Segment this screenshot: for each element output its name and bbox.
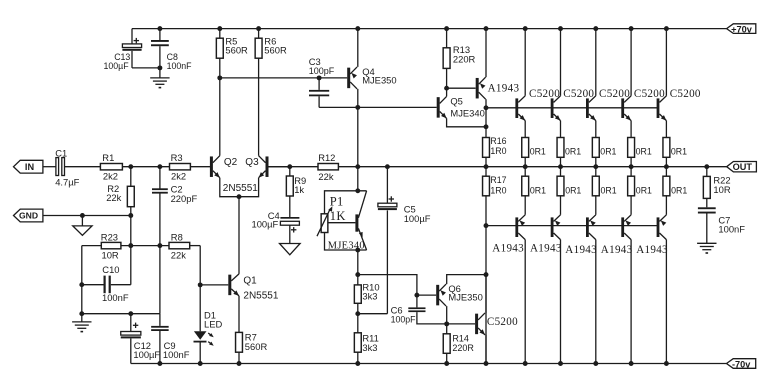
resistor R3 2k2 <box>170 164 191 170</box>
svg-text:2k2: 2k2 <box>171 170 186 181</box>
node A (R1/R2/R3) <box>128 164 133 169</box>
resistor R17 1R0 <box>485 167 487 177</box>
svg-text:C5200: C5200 <box>670 88 701 100</box>
svg-text:A1943: A1943 <box>601 244 633 256</box>
svg-text:MJE340: MJE340 <box>328 241 365 252</box>
junction D1/Q1 base <box>198 282 203 287</box>
resistor 0R1 upper #2 <box>560 121 562 138</box>
junction upper 0R1 #1/OUT row <box>523 164 528 169</box>
capacitor C8 100nF <box>159 29 161 40</box>
svg-text:220R: 220R <box>452 343 474 353</box>
wire Q4 emitter to +70 rail <box>357 29 359 67</box>
svg-text:Q1: Q1 <box>243 275 257 286</box>
junction tail <box>237 194 242 199</box>
svg-text:220pF: 220pF <box>171 193 198 204</box>
main signal/output row wire <box>43 166 56 168</box>
svg-text:MJE350: MJE350 <box>362 74 396 85</box>
IN connector tag <box>14 160 43 173</box>
junction C13/C8 <box>157 65 162 70</box>
junction C5200 #3/+70 rail <box>593 26 598 31</box>
transistor A1943 output #2 <box>551 217 554 237</box>
transistor A1943 output #5 <box>657 217 660 237</box>
resistor R16 1R0 <box>485 127 487 138</box>
resistor 0R1 upper #4 <box>630 121 632 138</box>
wire driver emitter down <box>485 335 487 364</box>
capacitor C10 100nF <box>82 284 104 286</box>
junction R11/-70 rail <box>355 361 360 366</box>
svg-text:0R1: 0R1 <box>636 185 652 195</box>
wire feedback row <box>82 245 102 247</box>
svg-text:GND: GND <box>19 211 38 221</box>
upper output base bus <box>486 107 658 109</box>
svg-text:4.7µF: 4.7µF <box>55 176 79 187</box>
transistor Q6 MJE350 <box>436 285 439 306</box>
wire P1 wiper to bias transistor base <box>328 222 356 224</box>
junction Q4/+70 rail <box>355 26 360 31</box>
wire GND row <box>43 215 131 217</box>
resistor R10 3k3 <box>357 275 359 285</box>
svg-text:A1943: A1943 <box>636 244 668 256</box>
svg-text:0R1: 0R1 <box>565 147 581 157</box>
junction box bottom <box>355 248 360 253</box>
svg-text:Q3: Q3 <box>245 157 259 168</box>
svg-text:3k3: 3k3 <box>362 342 377 353</box>
transistor C5200 output #3 <box>586 98 589 118</box>
svg-text:560R: 560R <box>225 45 248 56</box>
svg-text:C5200: C5200 <box>563 88 594 100</box>
junction C5200 #5/+70 rail <box>664 26 669 31</box>
svg-text:2k2: 2k2 <box>103 170 118 181</box>
svg-text:3k3: 3k3 <box>362 291 377 302</box>
junction earth branch <box>79 311 84 316</box>
junction R10 top <box>355 272 360 277</box>
junction C6 top/Q6 base <box>414 293 419 298</box>
svg-text:R8: R8 <box>171 231 183 242</box>
junction C5 top <box>385 164 390 169</box>
transistor Q4 MJE350 <box>347 68 350 89</box>
transistor bias MJE340 <box>355 214 358 231</box>
wire Q4 collector down to main row and bias box <box>357 89 359 191</box>
svg-text:22k: 22k <box>318 171 333 182</box>
-70v supply rail <box>131 363 727 365</box>
svg-text:560R: 560R <box>264 45 287 56</box>
svg-text:100µF: 100µF <box>104 61 130 71</box>
GND connector tag <box>14 209 43 222</box>
junction R13/Q5 collector <box>444 86 449 91</box>
resistor 0R1 upper #1 <box>524 121 526 138</box>
junction C5200 #2/+70 rail <box>558 26 563 31</box>
transistor Q1 2N5551 <box>200 284 228 286</box>
junction predriver/+70 rail <box>484 26 489 31</box>
svg-text:C5200: C5200 <box>487 316 518 328</box>
junction upper base bus <box>484 105 489 110</box>
resistor R2 22k <box>130 167 132 246</box>
svg-text:2N5551: 2N5551 <box>223 183 258 194</box>
resistor 0R1 lower #2 <box>560 167 562 177</box>
junction R9 top/Q3 base <box>287 164 292 169</box>
svg-text:0R1: 0R1 <box>600 147 616 157</box>
wire VAS drive row (R5 bottom to Q4 base) <box>220 77 347 79</box>
wire Q5 collector up <box>446 88 448 96</box>
junction C5200 #1/+70 rail <box>523 26 528 31</box>
transistor Q2 2N5551 <box>210 156 213 177</box>
svg-text:IN: IN <box>25 162 35 172</box>
svg-text:0R1: 0R1 <box>530 147 546 157</box>
resistor R14 220R <box>446 324 448 334</box>
svg-text:22k: 22k <box>171 250 186 261</box>
junction R13/+70 rail <box>444 26 449 31</box>
resistor 0R1 upper #5 <box>665 121 667 138</box>
svg-text:R23: R23 <box>101 231 118 242</box>
resistor 0R1 lower #4 <box>630 167 632 177</box>
capacitor C2 220pF <box>159 167 161 189</box>
svg-text:1k: 1k <box>294 184 304 195</box>
junction upper 0R1 #5/OUT row <box>664 164 669 169</box>
-70v tag <box>727 359 756 369</box>
junction D1/-70 rail <box>198 361 203 366</box>
svg-text:C5200: C5200 <box>634 88 665 100</box>
svg-text:OUT: OUT <box>733 162 753 172</box>
wire predriver emitter to +70 rail <box>485 29 487 78</box>
svg-text:C5200: C5200 <box>599 88 630 100</box>
resistor 0R1 lower #3 <box>595 167 597 177</box>
svg-text:100pF: 100pF <box>309 66 335 76</box>
junction A1943 #2/-70 rail <box>558 361 563 366</box>
junction box top <box>355 188 360 193</box>
junction Q6 collector/R14/C6/driver base <box>444 321 449 326</box>
svg-text:LED: LED <box>204 318 222 329</box>
svg-text:R3: R3 <box>171 152 183 163</box>
svg-text:0R1: 0R1 <box>601 185 617 195</box>
junction A1943 #5/-70 rail <box>664 361 669 366</box>
junction R16/OUT row <box>484 164 489 169</box>
svg-text:100µF: 100µF <box>133 349 160 360</box>
wire Q5 collector row to predriver base <box>447 87 476 89</box>
wire Q6 emitter row <box>447 275 486 285</box>
svg-text:P1: P1 <box>330 194 344 208</box>
svg-text:A1943: A1943 <box>530 243 562 255</box>
wire C5 bottom to R10 bottom <box>358 313 388 315</box>
capacitor C1 (4.7uF input) <box>56 158 59 176</box>
junction C9/-70 rail <box>157 361 162 366</box>
svg-text:Q2: Q2 <box>224 157 238 168</box>
svg-text:R1: R1 <box>102 152 114 163</box>
resistor R22 10R <box>706 167 708 177</box>
svg-text:0R1: 0R1 <box>565 185 581 195</box>
junction C2 column/R8 row <box>157 243 162 248</box>
wire driver collector up <box>485 275 487 313</box>
svg-text:1R0: 1R0 <box>490 186 506 196</box>
junction R22/OUT row <box>704 164 709 169</box>
svg-text:0R1: 0R1 <box>671 147 687 157</box>
+70v supply rail <box>132 28 727 30</box>
junction Q4 collector/Q5 base wire <box>355 105 360 110</box>
svg-text:100µF: 100µF <box>404 213 431 224</box>
transistor Q3 2N5551 <box>266 156 269 177</box>
svg-text:A1943: A1943 <box>565 244 597 256</box>
wire box bottom to R10 <box>357 250 359 275</box>
junction C5200 #4/+70 rail <box>629 26 634 31</box>
svg-text:R17: R17 <box>490 175 506 185</box>
svg-text:C5200: C5200 <box>529 88 560 100</box>
junction R5/Q2 collector <box>217 75 222 80</box>
resistor 0R1 lower #1 <box>524 167 526 177</box>
svg-text:100nF: 100nF <box>163 349 190 360</box>
svg-text:1K: 1K <box>330 209 346 223</box>
ground symbol (earth) under C7 <box>697 242 716 244</box>
resistor 0R1 lower #5 <box>665 167 667 177</box>
svg-text:C1: C1 <box>55 147 67 158</box>
ground symbol (triangle) under C4 <box>289 225 291 243</box>
resistor 0R1 upper #3 <box>595 121 597 138</box>
wire driver base <box>447 323 475 325</box>
junction Q4 collector/main row <box>355 164 360 169</box>
junction upper 0R1 #3/OUT row <box>593 164 598 169</box>
junction R5/+70 rail <box>217 26 222 31</box>
transistor A1943 output #4 <box>621 217 624 237</box>
capacitor C6 100pF <box>416 295 418 307</box>
svg-text:MJE340: MJE340 <box>450 107 484 118</box>
transistor A1943 predriver <box>476 78 479 99</box>
capacitor C13 100uF <box>131 29 133 44</box>
svg-text:0R1: 0R1 <box>636 147 652 157</box>
wire Q3 emitter to tail <box>239 178 259 197</box>
resistor R13 220R <box>446 29 448 48</box>
potentiometer P1 1K <box>321 214 328 233</box>
junction upper 0R1 #2/OUT row <box>558 164 563 169</box>
svg-text:1R0: 1R0 <box>490 146 506 156</box>
wire R8 right to D1 column <box>199 246 201 285</box>
junction upper 0R1 #4/OUT row <box>629 164 634 169</box>
svg-text:10R: 10R <box>102 250 119 261</box>
wire predriver collector down / R16 column <box>485 99 487 127</box>
svg-text:100µF: 100µF <box>252 218 279 229</box>
junction R7/-70 rail <box>237 361 242 366</box>
+70v tag <box>727 24 756 34</box>
capacitor C4 100uF <box>289 196 291 217</box>
resistor R11 3k3 <box>357 314 359 333</box>
LED D1 <box>199 285 201 331</box>
junction R14/-70 rail <box>444 361 449 366</box>
junction C3 top <box>317 75 322 80</box>
junction R10/R11/C5 <box>355 311 360 316</box>
transistor A1943 output #3 <box>586 217 589 237</box>
transistor C5200 driver <box>475 314 478 335</box>
junction A1943 #3/-70 rail <box>593 361 598 366</box>
junction A1943 #4/-70 rail <box>629 361 634 366</box>
wire Q2 emitter to tail <box>220 178 239 197</box>
junction R2/GND row <box>128 213 133 218</box>
svg-text:R12: R12 <box>318 152 335 163</box>
node B (C2 top) <box>157 164 162 169</box>
wire Q3 base <box>268 166 290 168</box>
wire Q2 collector up <box>219 78 221 156</box>
capacitor C9 100nF <box>159 314 161 326</box>
resistor R12 22k <box>318 164 338 170</box>
transistor C5200 output #5 <box>657 98 660 118</box>
wire R23 left leg down <box>81 246 83 314</box>
svg-text:Q5: Q5 <box>450 96 463 107</box>
resistor R23 10R <box>101 242 121 248</box>
junction C10 left <box>79 282 84 287</box>
svg-text:100nF: 100nF <box>718 223 745 234</box>
ground symbol (earth) under C8 <box>159 68 161 78</box>
svg-text:-70v: -70v <box>732 359 751 369</box>
junction Q6 emitter row <box>484 272 489 277</box>
wire R10 top row to C6 column <box>358 275 417 296</box>
junction A1943 #1/-70 rail <box>523 361 528 366</box>
wire C3 bottom to Q5 base <box>319 106 437 108</box>
svg-text:A1943: A1943 <box>488 83 520 95</box>
wire Q3 collector up to R6 <box>258 58 260 156</box>
transistor C5200 output #1 <box>515 98 518 118</box>
node GND junction <box>80 213 85 218</box>
svg-text:+70v: +70v <box>731 24 753 34</box>
svg-text:22k: 22k <box>106 192 121 203</box>
resistor R6 560R <box>258 29 260 39</box>
wire Q1 collector to diff pair tail <box>238 197 240 274</box>
transistor A1943 output #1 <box>515 217 518 237</box>
wire Q6 collector <box>446 306 448 324</box>
wire C10 right up to feedback row <box>130 246 132 285</box>
wire Q5 emitter <box>447 118 486 126</box>
ground symbol (earth) bottom-left <box>81 314 83 322</box>
svg-text:220R: 220R <box>453 54 476 65</box>
svg-text:MJE350: MJE350 <box>448 292 482 303</box>
resistor R8 22k <box>169 242 190 248</box>
wire Q6 base <box>417 294 436 296</box>
resistor R7 560R <box>238 296 240 333</box>
svg-text:100nF: 100nF <box>167 61 193 71</box>
transistor C5200 output #2 <box>551 98 554 118</box>
bias network box (P1 + MJE340) <box>325 191 367 214</box>
svg-text:R16: R16 <box>490 136 506 146</box>
wire bottom-left row <box>82 313 160 315</box>
junction Q5 emitter/R16 column <box>484 124 489 129</box>
junction R6/+70 rail <box>256 26 261 31</box>
junction column/-70 rail <box>484 361 489 366</box>
junction C12 top <box>128 311 133 316</box>
svg-text:10R: 10R <box>713 184 730 195</box>
svg-text:560R: 560R <box>245 341 268 352</box>
capacitor C12 100uF <box>130 314 132 332</box>
junction R2 bottom/R23/R8 row <box>128 243 133 248</box>
svg-text:0R1: 0R1 <box>671 185 687 195</box>
capacitor C7 100nF <box>706 198 708 207</box>
ground symbol (triangle) at GND <box>81 216 83 226</box>
transistor C5200 output #4 <box>621 98 624 118</box>
svg-text:A1943: A1943 <box>492 243 524 255</box>
resistor R1 2k2 <box>100 164 122 170</box>
transistor Q5 MJE340 <box>437 97 440 118</box>
resistor R5 560R <box>219 29 221 39</box>
svg-text:0R1: 0R1 <box>530 185 546 195</box>
junction C8/+70 rail <box>157 26 162 31</box>
junction lower base bus <box>484 223 489 228</box>
OUT tag <box>727 162 757 172</box>
svg-text:100pF: 100pF <box>391 314 417 324</box>
svg-text:C10: C10 <box>102 264 119 275</box>
svg-text:2N5551: 2N5551 <box>243 291 278 302</box>
lower output base bus <box>486 225 658 227</box>
resistor R9 1k <box>289 167 291 176</box>
svg-text:100nF: 100nF <box>102 292 129 303</box>
